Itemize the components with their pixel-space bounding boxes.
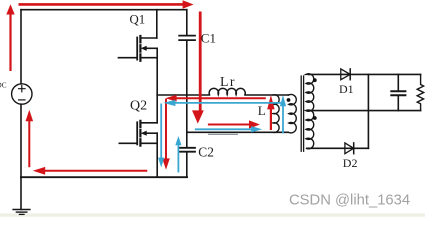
- svg-text:CSDN @liht_1634: CSDN @liht_1634: [289, 193, 410, 209]
- svg-text:D1: D1: [339, 82, 354, 96]
- svg-text:DC: DC: [0, 81, 7, 89]
- svg-text:C1: C1: [201, 31, 216, 46]
- svg-text:C2: C2: [198, 144, 214, 159]
- svg-text:L: L: [258, 103, 266, 118]
- svg-text:Lr: Lr: [220, 74, 236, 89]
- svg-text:Q2: Q2: [130, 98, 147, 113]
- svg-text:Q1: Q1: [130, 12, 146, 26]
- svg-text:D2: D2: [343, 156, 358, 170]
